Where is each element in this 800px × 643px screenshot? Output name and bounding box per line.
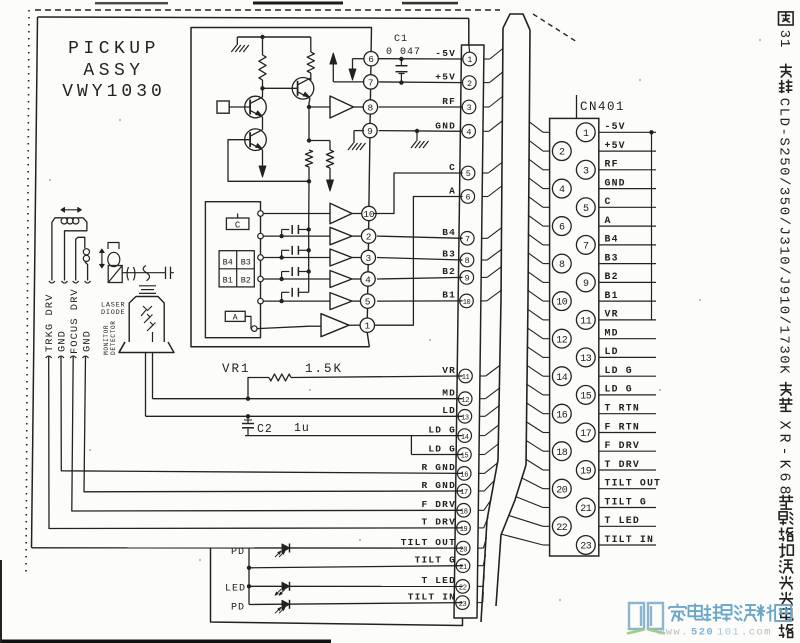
svg-text:7: 7 <box>368 77 374 88</box>
svg-text:8: 8 <box>465 256 470 266</box>
CN401 pin 16 <box>552 404 571 423</box>
svg-text:DETECTOR: DETECTOR <box>110 320 117 355</box>
ribbon hatches CN401 side <box>529 121 543 132</box>
svg-text:PICKUP: PICKUP <box>68 39 160 59</box>
CN401 row line C <box>599 206 656 208</box>
pickup pin 3 <box>462 100 476 114</box>
CN401 row line TILT IN <box>599 544 656 546</box>
svg-text:FOCUS DRV: FOCUS DRV <box>69 288 81 354</box>
svg-text:MONITOR: MONITOR <box>103 325 110 355</box>
pad circle 8 <box>363 100 377 114</box>
collimator lens <box>127 267 129 280</box>
svg-text:10: 10 <box>463 299 471 307</box>
cap bus vertical <box>308 229 310 292</box>
pickup pin 5 <box>461 166 475 180</box>
pickup connector box <box>454 45 484 618</box>
wire C net <box>374 173 463 214</box>
wire Q1a emitter to Q1b collector <box>262 117 264 130</box>
svg-text:ASSY: ASSY <box>83 61 144 81</box>
CN401 row line B4 <box>599 244 656 246</box>
svg-text:B2: B2 <box>605 271 619 282</box>
feedback wire Q1b base <box>228 140 309 182</box>
svg-text:-5V: -5V <box>605 121 626 132</box>
sampling capacitors <box>282 229 290 231</box>
CN401 row line RF <box>599 169 656 171</box>
amplifier block box <box>191 28 372 347</box>
svg-text:5: 5 <box>365 297 371 308</box>
CN401 pin 20 <box>552 479 571 498</box>
svg-text:LD G: LD G <box>428 444 456 455</box>
pickup pin 18 <box>457 504 471 518</box>
svg-text:10: 10 <box>556 298 568 309</box>
CN401 pin 13 <box>576 348 595 367</box>
node terminals on detector box <box>258 211 264 217</box>
CN401 pin 22 <box>552 517 571 536</box>
junction dots on rows <box>279 234 283 238</box>
svg-text:A: A <box>233 314 238 323</box>
cylindrical lens <box>143 266 149 281</box>
ribbon cable <box>503 14 530 30</box>
CN401 row line LD <box>599 356 656 358</box>
svg-text:B1: B1 <box>442 290 456 301</box>
op-amp RF <box>309 106 330 108</box>
resistor R-a vertical <box>262 37 264 55</box>
pickup pin 11 <box>459 369 473 383</box>
dashed border top <box>35 9 500 11</box>
tracking coil <box>52 218 61 281</box>
wire B3 <box>377 258 463 261</box>
potentiometer VR1 1.5K <box>291 376 463 378</box>
svg-text:LD G: LD G <box>605 365 633 376</box>
grating <box>165 267 167 279</box>
wire RF <box>379 106 463 108</box>
CN401 row line T RTN <box>599 413 656 415</box>
svg-text:11: 11 <box>462 374 470 382</box>
svg-text:19: 19 <box>580 467 592 478</box>
pickup pin 22 <box>456 580 470 594</box>
CN401 pin 6 <box>552 217 571 236</box>
svg-text:6: 6 <box>368 54 374 65</box>
op-amp channel A <box>321 314 349 337</box>
scan speckles <box>309 389 311 391</box>
svg-text:MD: MD <box>442 388 456 399</box>
laser leads down <box>152 353 154 399</box>
CN401 row line LD G <box>599 394 656 396</box>
svg-text:GND: GND <box>57 330 69 352</box>
wire -5V <box>379 58 463 60</box>
wire TILT IN <box>249 603 463 605</box>
photodiode quad box B4 B3 B1 B2 <box>219 251 254 287</box>
CN401 row line +5V <box>599 150 656 152</box>
CN401 pin 11 <box>576 311 595 330</box>
objective lens group <box>108 243 119 250</box>
pickup pin 4 <box>462 125 476 139</box>
svg-text:GND: GND <box>605 177 626 188</box>
svg-text:14: 14 <box>556 373 568 384</box>
wire TILT G <box>249 566 463 568</box>
svg-text:T DRV: T DRV <box>421 517 456 528</box>
CN401 pin 14 <box>552 367 571 386</box>
CN401 row line T DRV <box>599 469 656 471</box>
CN401 pin 4 <box>552 179 571 198</box>
svg-text:PD: PD <box>231 547 245 558</box>
svg-text:F DRV: F DRV <box>421 499 456 510</box>
svg-text:1: 1 <box>467 55 472 65</box>
wire break hooks bottom <box>46 356 52 358</box>
wire break hooks top <box>49 281 55 283</box>
CN401 pin 8 <box>552 254 571 273</box>
svg-text:1.5K: 1.5K <box>305 362 343 376</box>
LED on T LED <box>282 582 290 590</box>
pickup assy outer box top edge <box>38 17 469 18</box>
svg-text:T RTN: T RTN <box>605 403 640 414</box>
capacitor C1 <box>400 59 402 66</box>
svg-text:CN401: CN401 <box>580 100 625 114</box>
svg-text:4: 4 <box>559 185 565 196</box>
CN401 pin 19 <box>576 461 595 480</box>
pickup assy outer box left edge <box>32 17 38 548</box>
CN401 pin 2 <box>552 142 571 161</box>
pad circle 3 <box>361 250 375 264</box>
svg-text:21: 21 <box>580 504 592 515</box>
svg-text:6: 6 <box>559 223 565 234</box>
pickup pin 2 <box>463 76 477 90</box>
connector CN401 box <box>550 118 599 556</box>
svg-text:RF: RF <box>605 159 619 170</box>
svg-text:C: C <box>605 196 612 207</box>
wire branch to R-d <box>309 140 330 142</box>
CN401 row line B2 <box>599 281 656 283</box>
svg-text:TILT OUT: TILT OUT <box>605 478 662 489</box>
photodiode A box <box>225 311 245 321</box>
CN401 row line MD <box>599 338 656 340</box>
svg-text:LD: LD <box>605 346 619 357</box>
photodiode PD on TILT OUT <box>282 544 290 552</box>
beam splitter <box>108 266 122 283</box>
CN401 pin 15 <box>576 386 595 405</box>
pickup pin 21 <box>456 559 470 573</box>
wire TILT OUT <box>32 547 463 549</box>
svg-text:11: 11 <box>580 317 592 328</box>
CN401 pin 5 <box>576 198 595 217</box>
svg-text:F DRV: F DRV <box>605 440 640 451</box>
pickup pin 12 <box>458 392 472 406</box>
CN401 pin 1 <box>576 123 595 142</box>
CN401 row line LD G <box>599 375 656 377</box>
svg-text:B3: B3 <box>442 249 456 260</box>
svg-text:TILT OUT: TILT OUT <box>401 537 456 548</box>
svg-text:LD G: LD G <box>428 425 456 436</box>
wire pad9 to ground <box>354 130 364 132</box>
svg-text:B4: B4 <box>605 234 619 245</box>
wire GND <box>379 130 463 133</box>
svg-text:B2: B2 <box>442 266 456 277</box>
svg-text:TILT G: TILT G <box>415 555 456 566</box>
wire B2 <box>377 277 463 279</box>
svg-text:520: 520 <box>691 627 714 639</box>
svg-text:B4: B4 <box>442 227 456 238</box>
svg-text:RF: RF <box>442 96 456 107</box>
wire B1 <box>377 300 463 302</box>
ground on GND wire <box>416 131 418 141</box>
pickup pin 16 <box>457 467 471 481</box>
pickup pin 15 <box>458 448 472 462</box>
CN401 row line F RTN <box>599 432 656 434</box>
dashed border left <box>26 10 29 572</box>
svg-text:2: 2 <box>467 79 472 89</box>
svg-text:TRKG DRV: TRKG DRV <box>44 294 56 352</box>
svg-text:A: A <box>605 215 612 226</box>
CN401 row line T LED <box>599 525 656 527</box>
detector block box <box>205 202 260 338</box>
tracking move arrow <box>62 209 81 211</box>
label CN401 <box>576 95 578 118</box>
svg-text:B1: B1 <box>605 290 619 301</box>
pad circle 5 <box>360 294 374 308</box>
photodiode C box <box>226 218 249 230</box>
pad circle 1 <box>360 318 374 332</box>
svg-text:9: 9 <box>367 126 373 137</box>
transistor Q1a <box>245 96 267 118</box>
pickup pin 19 <box>457 521 471 535</box>
svg-text:20: 20 <box>556 485 568 496</box>
wire R-c node down to detector bus <box>308 181 310 229</box>
pad circle 7 <box>364 75 378 89</box>
svg-text:T LED: T LED <box>605 515 640 526</box>
svg-text:TILT IN: TILT IN <box>408 592 456 603</box>
svg-text:31: 31 <box>776 30 792 49</box>
common vertical of tilt block <box>248 548 250 605</box>
svg-text:8: 8 <box>368 102 374 113</box>
wire +5V <box>379 81 463 84</box>
pickup pin 23 <box>456 596 470 610</box>
svg-text:2: 2 <box>366 232 372 243</box>
wire Q2 emitter down <box>309 98 310 103</box>
svg-text:7: 7 <box>465 235 470 245</box>
svg-text:17: 17 <box>580 429 592 440</box>
svg-text:A: A <box>449 186 456 197</box>
svg-text:R GND: R GND <box>421 462 456 473</box>
svg-text:1: 1 <box>364 321 370 332</box>
capacitor C2 <box>247 416 249 423</box>
svg-text:LD G: LD G <box>605 384 633 395</box>
svg-text:C: C <box>449 162 456 173</box>
CN401 pin 3 <box>576 160 595 179</box>
pickup pin 14 <box>458 429 472 443</box>
svg-text:8: 8 <box>559 260 565 271</box>
wire B4 <box>377 236 463 238</box>
pad circle 10 <box>362 206 376 220</box>
svg-text:7: 7 <box>583 242 589 253</box>
svg-text:15: 15 <box>580 392 592 403</box>
IC bus right edge with pads <box>370 28 372 52</box>
svg-text:GND: GND <box>435 121 456 132</box>
beam axis <box>122 272 162 274</box>
arrow to negative rail <box>329 168 331 182</box>
CN401 pin 9 <box>576 273 595 292</box>
svg-text:+5V: +5V <box>605 140 626 151</box>
focus coil <box>76 237 85 280</box>
wire T DRV <box>49 356 463 529</box>
watermark site name <box>669 604 686 622</box>
ground top-left <box>236 37 238 45</box>
svg-text:0 047: 0 047 <box>386 47 421 58</box>
svg-text:9: 9 <box>583 279 589 290</box>
pickup pin 6 <box>461 190 475 204</box>
svg-text:F RTN: F RTN <box>605 421 640 432</box>
CN401 pin 21 <box>576 498 595 517</box>
transistor Q1b <box>245 129 267 151</box>
photodiode PD on TILT IN <box>282 600 290 608</box>
watermark book icon <box>629 603 663 629</box>
pickup pin 13 <box>458 410 472 424</box>
wire A net <box>374 197 463 326</box>
dashed border slant right of cable <box>533 14 577 42</box>
pickup pin 17 <box>457 484 471 498</box>
svg-text:C2: C2 <box>257 423 273 436</box>
svg-text:9: 9 <box>464 274 469 284</box>
svg-text:16: 16 <box>556 410 568 421</box>
svg-text:VWY1030: VWY1030 <box>62 82 166 102</box>
caption column <box>776 12 794 638</box>
CN401 row line B3 <box>599 263 656 265</box>
svg-text:LD: LD <box>442 405 456 416</box>
wire base Q2 <box>263 87 298 89</box>
svg-text:R GND: R GND <box>421 480 456 491</box>
svg-text:LED: LED <box>225 584 246 595</box>
input square terminal <box>217 101 229 113</box>
wire LD <box>146 415 463 417</box>
pad circle 9 <box>363 123 377 137</box>
CN401 row line F DRV <box>599 450 656 452</box>
arrow +5V supply up <box>333 81 364 83</box>
svg-text:1: 1 <box>583 129 589 140</box>
svg-text:www.: www. <box>658 627 689 639</box>
svg-text:VR1: VR1 <box>222 362 251 376</box>
CN401 row line B1 <box>599 300 656 302</box>
laser grating plates <box>139 285 156 287</box>
CN401 pin 12 <box>552 329 571 348</box>
pickup pin 7 <box>461 232 475 246</box>
svg-text:-5V: -5V <box>435 48 456 59</box>
CN401 pin 10 <box>552 292 571 311</box>
svg-text:5: 5 <box>583 204 589 215</box>
wire top rail <box>237 36 310 38</box>
svg-text:B4: B4 <box>223 258 233 268</box>
arrow -5V supply down <box>353 58 365 60</box>
pickup pin 9 <box>460 271 474 285</box>
pickup pin 8 <box>460 253 474 267</box>
CN401 row line VR <box>599 319 656 321</box>
svg-text:3: 3 <box>365 253 371 264</box>
wire R GND 2 <box>84 356 463 492</box>
CN401 right bus -5V to VR <box>651 132 653 320</box>
ribbon hatches pickup side <box>484 58 490 60</box>
outer box bottom step <box>211 548 463 626</box>
svg-text:10: 10 <box>363 209 375 220</box>
svg-text:5: 5 <box>466 169 471 179</box>
resistor R-c vertical <box>305 150 312 167</box>
CN401 row line TILT OUT <box>599 488 656 490</box>
pad circle 2 <box>361 229 375 243</box>
wire -5V feed to connector top <box>468 18 470 46</box>
transistor Q2 <box>292 78 314 100</box>
svg-text:B1: B1 <box>223 276 233 286</box>
svg-text:3: 3 <box>583 166 589 177</box>
resistor R-d vertical <box>329 141 331 151</box>
svg-text:XR-K68: XR-K68 <box>776 421 793 499</box>
svg-text:4: 4 <box>466 128 471 138</box>
svg-text:GND: GND <box>82 330 94 352</box>
svg-text:B3: B3 <box>605 252 619 263</box>
row wires to amplifiers <box>263 213 330 215</box>
svg-text:22: 22 <box>556 523 568 534</box>
svg-text:13: 13 <box>580 354 592 365</box>
svg-text:MD: MD <box>605 328 619 339</box>
CN401 pin 18 <box>552 442 571 461</box>
svg-text:23: 23 <box>580 542 592 553</box>
svg-text:12: 12 <box>556 335 568 346</box>
wire Q1b emitter down with arrow <box>262 150 264 160</box>
svg-text:+5V: +5V <box>435 72 456 83</box>
svg-text:18: 18 <box>556 448 568 459</box>
pickup pin 10 <box>460 294 474 308</box>
svg-text:2: 2 <box>559 148 565 159</box>
scan mark bottom edge <box>0 640 331 643</box>
pickup pin 1 <box>463 52 477 66</box>
svg-text:C1: C1 <box>394 34 408 45</box>
wire F DRV <box>72 356 463 511</box>
CN401 row line A <box>599 225 656 227</box>
svg-text:.com: .com <box>741 627 772 639</box>
svg-text:CLD-S250/350/J310/J910/1730K: CLD-S250/350/J310/J910/1730K <box>776 98 792 375</box>
CN401 row line GND <box>599 188 656 190</box>
pad circle 4 <box>361 272 375 286</box>
wire T LED <box>249 585 463 587</box>
svg-text:VR: VR <box>442 365 456 376</box>
op-amps channel array <box>330 203 352 224</box>
CN401 row line TILT G <box>599 507 656 509</box>
CN401 pin 23 <box>576 536 595 555</box>
svg-text:6: 6 <box>465 193 470 203</box>
svg-text:DIODE: DIODE <box>101 309 125 317</box>
CN401 row line -5V <box>599 131 656 133</box>
wire Q1a collector to node <box>262 88 264 97</box>
pickup pin 20 <box>456 541 470 555</box>
wire R GND 1 <box>61 356 463 473</box>
scan mark top edge <box>95 2 168 4</box>
resistor R-b vertical <box>310 37 312 52</box>
focus move arrow <box>101 250 103 268</box>
svg-text:101: 101 <box>717 627 740 639</box>
CN401 pin 7 <box>576 236 595 255</box>
svg-text:C: C <box>235 220 241 230</box>
wire LD G pair <box>245 435 463 437</box>
wire MD <box>153 398 463 400</box>
svg-text:T DRV: T DRV <box>605 459 640 470</box>
laser diode package <box>129 297 164 343</box>
CN401 pin 17 <box>576 423 595 442</box>
pad circle 6 <box>364 52 378 66</box>
svg-text:1u: 1u <box>294 422 310 435</box>
svg-text:B2: B2 <box>241 276 251 286</box>
svg-text:B3: B3 <box>241 258 251 268</box>
svg-text:TILT IN: TILT IN <box>605 534 655 545</box>
svg-text:3: 3 <box>467 103 472 113</box>
laser diode symbols inside <box>152 332 154 342</box>
svg-text:T LED: T LED <box>421 575 456 586</box>
svg-text:VR: VR <box>605 309 619 320</box>
